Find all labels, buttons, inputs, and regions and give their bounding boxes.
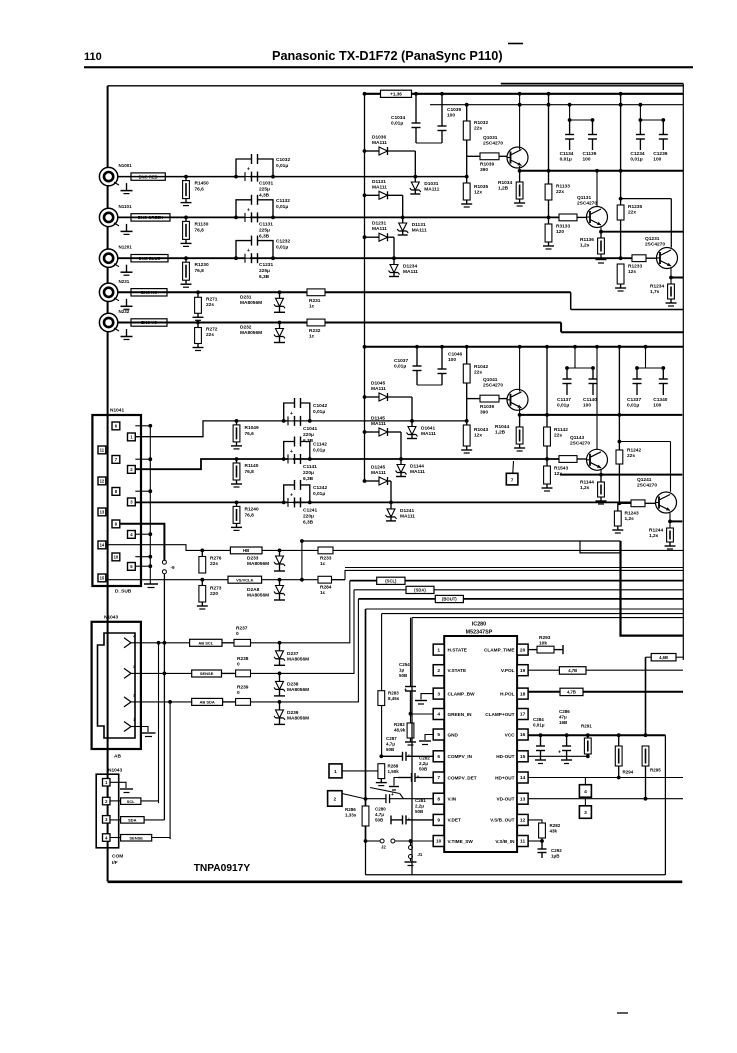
wire +1,36 supply rail bbox=[365, 93, 684, 95]
wire Q1143 collector bbox=[595, 345, 599, 449]
wire Q1143 emitter line bbox=[560, 470, 682, 477]
pin 5 N1041 bbox=[128, 563, 136, 571]
svg-text:D231: D231 bbox=[240, 294, 252, 300]
svg-text:7: 7 bbox=[511, 477, 514, 483]
svg-text:MA111: MA111 bbox=[372, 140, 387, 146]
svg-text:C284: C284 bbox=[533, 717, 544, 722]
wire Q1031 emitter rail bbox=[520, 166, 684, 171]
svg-text:N232: N232 bbox=[119, 309, 130, 314]
wire HB line bbox=[106, 545, 684, 551]
svg-text:0,01μ: 0,01μ bbox=[276, 204, 288, 210]
resistor R1234 1,7 bbox=[650, 284, 674, 300]
svg-text:D237: D237 bbox=[287, 651, 299, 657]
svg-text:V.S/B_IN: V.S/B_IN bbox=[495, 839, 515, 844]
svg-text:76,8: 76,8 bbox=[195, 227, 205, 233]
svg-text:R293: R293 bbox=[539, 635, 551, 641]
svg-text:R288: R288 bbox=[388, 764, 399, 769]
capacitor C1046 bbox=[438, 345, 463, 385]
svg-text:COMPV_DET: COMPV_DET bbox=[448, 775, 477, 780]
svg-text:1,2B: 1,2B bbox=[498, 186, 509, 192]
svg-text:100: 100 bbox=[583, 403, 591, 409]
diode D1144 MA111 clamp bbox=[396, 459, 426, 477]
svg-text:MA111: MA111 bbox=[421, 431, 436, 437]
node 4,6B label bbox=[651, 654, 683, 661]
ground R1035 bbox=[461, 200, 472, 207]
ground pin1 A/B bbox=[141, 727, 156, 737]
node SCL label COM bbox=[110, 798, 159, 805]
svg-text:N1201: N1201 bbox=[119, 245, 133, 250]
wire Q1231 collector link bbox=[621, 199, 672, 248]
wire R1235 rail feed bbox=[619, 92, 623, 171]
svg-text:V.TIME_SW: V.TIME_SW bbox=[448, 839, 474, 844]
svg-text:4,7μ: 4,7μ bbox=[386, 742, 395, 747]
resistor base Q1241 bbox=[619, 500, 655, 507]
svg-text:D1245: D1245 bbox=[371, 465, 385, 471]
svg-text:R1240: R1240 bbox=[245, 506, 259, 512]
svg-text:220μ: 220μ bbox=[303, 513, 314, 519]
svg-text:R1032: R1032 bbox=[474, 120, 488, 126]
svg-text:N1043: N1043 bbox=[104, 615, 118, 621]
wire V.IN bus vertical bbox=[364, 609, 368, 843]
ground R1049 bbox=[231, 442, 242, 449]
wire stage2 supply rail bbox=[365, 346, 684, 348]
resistor R273 220 bbox=[199, 580, 222, 602]
stray mark bottom bbox=[617, 1012, 628, 1014]
svg-text:2SC4270: 2SC4270 bbox=[570, 441, 590, 447]
wire IC enclosing box bottom bbox=[366, 874, 666, 876]
svg-text:9: 9 bbox=[437, 818, 440, 824]
svg-text:+: + bbox=[558, 750, 561, 756]
ground R282b bbox=[405, 738, 416, 745]
svg-text:D1144: D1144 bbox=[410, 464, 424, 470]
svg-text:+: + bbox=[404, 688, 407, 694]
svg-text:225μ: 225μ bbox=[259, 187, 270, 193]
capacitor C280 4,7u bbox=[375, 792, 394, 823]
svg-text:5: 5 bbox=[437, 732, 440, 738]
capacitor C1232 bypass loop bbox=[234, 236, 290, 261]
svg-text:R231: R231 bbox=[309, 298, 321, 304]
svg-text:H.POL: H.POL bbox=[500, 691, 514, 696]
capacitor C283 2,2u pin7 bbox=[389, 756, 433, 791]
wire cap pair feed C1137 bbox=[565, 345, 595, 370]
resistor R1244 1,2 bbox=[649, 528, 673, 543]
svg-text:SENSE: SENSE bbox=[200, 671, 214, 676]
pin 15 IC280 HD-OUT bbox=[496, 751, 528, 762]
diode D237 MA8056M bbox=[274, 641, 309, 665]
capacitor C1242 bypass loop bbox=[282, 480, 328, 504]
ground R3133 bbox=[543, 242, 554, 249]
svg-text:C1140: C1140 bbox=[583, 397, 597, 403]
capacitor C1041 coupling bbox=[284, 411, 318, 444]
svg-text:10: 10 bbox=[436, 839, 442, 845]
svg-text:12: 12 bbox=[520, 818, 526, 824]
svg-text:MA8056M: MA8056M bbox=[287, 687, 309, 693]
svg-text:C1039: C1039 bbox=[447, 107, 461, 113]
diode D1031 MA111 clamp bbox=[410, 177, 440, 194]
svg-text:11: 11 bbox=[520, 839, 525, 845]
ground R1144 bbox=[596, 497, 607, 504]
resistor R276 22 bbox=[199, 549, 222, 574]
connector N1201 BNC bbox=[99, 245, 132, 268]
svg-text:MA8056M: MA8056M bbox=[240, 330, 262, 336]
wire bus BOUT line bbox=[358, 598, 683, 600]
ground R1044 bbox=[514, 444, 525, 451]
wire V.POL line bbox=[528, 669, 683, 671]
pin 2 COM I/F bbox=[103, 797, 111, 805]
wire N1041 pin stub bbox=[135, 489, 152, 493]
svg-text:HD+OUT: HD+OUT bbox=[495, 775, 515, 780]
ground R1543 bbox=[542, 484, 553, 491]
transistor Q1241 2SC4270 bbox=[637, 477, 677, 513]
diode D1245 MA111 bbox=[363, 465, 393, 505]
svg-text:C1242: C1242 bbox=[313, 485, 327, 491]
svg-text:R284: R284 bbox=[320, 585, 332, 591]
pin 2 IC280 V.STATE bbox=[433, 665, 466, 676]
svg-text:AB SCL: AB SCL bbox=[198, 641, 213, 646]
svg-text:C1042: C1042 bbox=[313, 403, 327, 409]
svg-text:TNPA0917Y: TNPA0917Y bbox=[194, 863, 251, 874]
svg-text:MA111: MA111 bbox=[424, 187, 439, 193]
svg-text:0,01μ: 0,01μ bbox=[630, 157, 642, 163]
svg-text:76,8: 76,8 bbox=[245, 512, 255, 518]
resistor R1243 1,2k bbox=[614, 503, 639, 526]
resistor base Q1143 bbox=[559, 456, 587, 463]
svg-text:R238: R238 bbox=[237, 656, 249, 662]
svg-text:+: + bbox=[408, 753, 411, 759]
svg-text:D2A8: D2A8 bbox=[247, 587, 260, 593]
svg-text:C282: C282 bbox=[419, 756, 430, 761]
svg-text:C1031: C1031 bbox=[259, 181, 273, 187]
svg-text:D1241: D1241 bbox=[400, 508, 414, 514]
pin 14 N1041 bbox=[98, 541, 106, 549]
wire VS/VCLK line bbox=[106, 578, 346, 582]
pin 12 IC280 V.S/B_OUT bbox=[490, 814, 528, 825]
svg-text:R232: R232 bbox=[309, 328, 321, 334]
svg-text:1,33s: 1,33s bbox=[345, 813, 357, 818]
ground N1101 bbox=[121, 224, 133, 235]
svg-text:VCC: VCC bbox=[505, 732, 516, 737]
svg-text:12s: 12s bbox=[628, 269, 636, 275]
svg-text:R1242: R1242 bbox=[627, 448, 641, 454]
svg-text:22s: 22s bbox=[206, 302, 214, 308]
svg-text:1,50k: 1,50k bbox=[388, 769, 400, 774]
svg-text:R237: R237 bbox=[236, 626, 248, 632]
node SCL label bbox=[377, 577, 405, 584]
diode D239 MA8056M bbox=[274, 700, 309, 724]
svg-text:+: + bbox=[247, 167, 250, 173]
ground R1240 bbox=[231, 523, 242, 530]
svg-text:COM: COM bbox=[112, 854, 123, 860]
pin 10 IC280 V.TIME_SW bbox=[433, 836, 473, 847]
resistor R237 0 bbox=[222, 626, 251, 647]
svg-text:1,2B: 1,2B bbox=[495, 430, 506, 436]
svg-text:20: 20 bbox=[520, 647, 526, 653]
svg-text:4: 4 bbox=[584, 789, 587, 795]
node BNC_VS label bbox=[131, 319, 167, 326]
pin 19 IC280 V.POL bbox=[501, 665, 528, 676]
svg-text:2SC4270: 2SC4270 bbox=[637, 483, 657, 489]
wire vertical SCL riser bbox=[158, 643, 160, 803]
svg-text:V.POL: V.POL bbox=[501, 668, 515, 673]
svg-text:C1131: C1131 bbox=[259, 221, 273, 227]
transistor Q1041 2SC4270 bbox=[483, 377, 528, 410]
svg-text:Q1231: Q1231 bbox=[645, 236, 660, 242]
resistor R1035 12k bbox=[463, 183, 488, 200]
ground R1244 bbox=[665, 542, 676, 549]
capacitor C1134 bbox=[560, 120, 575, 163]
svg-text:22s: 22s bbox=[210, 561, 218, 567]
svg-text:MA111: MA111 bbox=[372, 226, 387, 232]
resistor R232 1k bbox=[307, 319, 325, 339]
wire stray diagonal near pin8 bbox=[370, 788, 404, 799]
svg-text:4,7μ: 4,7μ bbox=[375, 812, 384, 817]
wire N1041 pin bus vertical bbox=[149, 426, 151, 584]
wire bus L9 bbox=[382, 613, 683, 615]
svg-text:D1031: D1031 bbox=[424, 181, 438, 187]
svg-text:+: + bbox=[417, 775, 420, 781]
svg-text:2: 2 bbox=[333, 796, 336, 802]
wire frame right bbox=[682, 84, 684, 660]
pin 3 N1043 A/B bbox=[124, 664, 141, 679]
svg-text:76,6: 76,6 bbox=[245, 431, 255, 437]
diode D1241 MA111 clamp bbox=[386, 502, 416, 521]
node SDA label COM bbox=[110, 817, 164, 824]
svg-text:R291: R291 bbox=[581, 724, 592, 729]
wire cap pair feed C1134 bbox=[568, 103, 595, 122]
svg-text:COMPV_IN: COMPV_IN bbox=[448, 754, 473, 759]
svg-text:0: 0 bbox=[237, 662, 240, 668]
wire BNC_HS line bbox=[118, 292, 684, 309]
ground R1043 bbox=[461, 446, 472, 453]
capacitor C1142 bypass loop bbox=[282, 437, 327, 461]
wire frame top bbox=[108, 84, 684, 86]
svg-text:R1144: R1144 bbox=[580, 480, 594, 486]
wire 4,6B feed vertical bbox=[646, 657, 652, 735]
node TNPA0917Y part number bbox=[194, 863, 251, 874]
svg-text:R272: R272 bbox=[206, 327, 218, 333]
resistor R271 22 bbox=[195, 290, 218, 313]
wire VCC line bbox=[528, 733, 665, 737]
jumper J1 bbox=[405, 839, 423, 865]
resistor R1133 22k bbox=[545, 169, 570, 224]
svg-text:V.STATE: V.STATE bbox=[448, 668, 467, 673]
transistor Q1231 2SC4270 bbox=[645, 236, 678, 269]
wire bus L10 IC top bbox=[412, 617, 683, 619]
connector N1001 BNC bbox=[99, 163, 132, 186]
svg-text:1μB: 1μB bbox=[551, 854, 560, 859]
svg-text:2SC4270: 2SC4270 bbox=[483, 141, 503, 147]
svg-text:C1337: C1337 bbox=[627, 397, 641, 403]
svg-text:3: 3 bbox=[584, 810, 587, 816]
pin 1 N1043 A/B bbox=[124, 717, 141, 732]
ground R1234 bbox=[666, 299, 677, 306]
svg-text:R1049: R1049 bbox=[245, 425, 259, 431]
resistor R284 1k bbox=[318, 576, 332, 596]
svg-text:V.S/B_OUT: V.S/B_OUT bbox=[490, 818, 514, 823]
node 7 off-page bbox=[506, 461, 518, 485]
svg-text:+: + bbox=[247, 248, 250, 254]
diode D1131 MA111 clamp bbox=[397, 217, 427, 235]
wire left main ground bus bbox=[107, 86, 109, 882]
svg-text:48,9k: 48,9k bbox=[394, 728, 406, 733]
svg-text:+: + bbox=[290, 411, 293, 417]
svg-text:R1450: R1450 bbox=[195, 181, 209, 187]
wire BNC_BLUE signal line bbox=[118, 257, 632, 259]
wire pin4 GREEN_IN bbox=[411, 713, 434, 715]
pin 7 IC280 COMPV_DET bbox=[433, 772, 477, 783]
wire pin5 ground bbox=[419, 735, 433, 745]
svg-text:CLAMP_TIME: CLAMP_TIME bbox=[484, 647, 514, 652]
resistor R272 22 bbox=[195, 321, 218, 344]
stray mark top bbox=[508, 43, 523, 45]
svg-text:C286: C286 bbox=[559, 709, 570, 714]
svg-text:R1243: R1243 bbox=[625, 511, 639, 517]
pin 2 N1041 bbox=[128, 466, 136, 474]
svg-text:AB: AB bbox=[114, 754, 121, 760]
svg-text:12: 12 bbox=[100, 479, 105, 484]
svg-text:225μ: 225μ bbox=[259, 268, 270, 274]
svg-text:C1142: C1142 bbox=[313, 442, 327, 448]
svg-text:4: 4 bbox=[437, 712, 440, 718]
svg-text:220μ: 220μ bbox=[303, 432, 314, 438]
svg-text:+: + bbox=[290, 449, 293, 455]
wire N1041 pin stub bbox=[135, 457, 152, 461]
wire pin8 V.IN bbox=[366, 798, 434, 800]
svg-text:MA111: MA111 bbox=[410, 469, 425, 475]
resistor R231 1k bbox=[307, 289, 325, 309]
wire clamp bus vertical bbox=[363, 92, 367, 347]
svg-text:R1230: R1230 bbox=[195, 262, 209, 268]
svg-text:J1: J1 bbox=[418, 852, 423, 857]
pin 9 N1041 bbox=[112, 520, 120, 528]
resistor R1049 bbox=[233, 419, 259, 442]
resistor R286 1,33 bbox=[345, 806, 369, 826]
svg-text:19: 19 bbox=[520, 668, 526, 674]
ground R1130 bbox=[181, 239, 192, 246]
svg-text:C292: C292 bbox=[551, 848, 562, 853]
svg-text:225μ: 225μ bbox=[259, 227, 270, 233]
wire bus SDA line bbox=[354, 589, 683, 591]
svg-text:C1234: C1234 bbox=[630, 151, 644, 157]
ground R1136 bbox=[596, 254, 607, 263]
diode D232 MA8056M bbox=[240, 321, 285, 343]
svg-text:220: 220 bbox=[210, 591, 218, 597]
jumper J2 bbox=[380, 839, 395, 850]
diode D231 MA8056M bbox=[240, 290, 285, 312]
svg-text:C1137: C1137 bbox=[557, 397, 571, 403]
capacitor C1141 coupling bbox=[284, 449, 318, 482]
node BNC_HS label bbox=[131, 289, 167, 296]
svg-text:R1244: R1244 bbox=[649, 528, 663, 534]
pin 16 IC280 VCC bbox=[505, 729, 529, 740]
svg-text:0,01μ: 0,01μ bbox=[557, 403, 569, 409]
wire DSUB blue line bbox=[135, 501, 632, 503]
wire VD-OUT line bbox=[528, 797, 683, 801]
node BNC_BLUE label bbox=[131, 255, 168, 262]
wire IC bottom return bbox=[365, 841, 367, 875]
ground N1041 bus bbox=[144, 584, 158, 588]
ground R1450 bbox=[181, 199, 192, 206]
resistor R295 bbox=[642, 746, 661, 799]
pin 3 IC280 CLAMP_BW bbox=[433, 688, 475, 699]
svg-text:D233: D233 bbox=[247, 556, 259, 562]
svg-text:MA111: MA111 bbox=[400, 513, 415, 519]
pin 13 N1041 bbox=[98, 508, 106, 516]
pin 6 IC280 COMPV_IN bbox=[433, 751, 472, 762]
capacitor C1037 bbox=[394, 345, 442, 385]
svg-text:1: 1 bbox=[437, 647, 440, 653]
svg-text:C1139: C1139 bbox=[583, 151, 597, 157]
svg-text:V.IN: V.IN bbox=[448, 797, 457, 802]
svg-text:R1034: R1034 bbox=[498, 180, 512, 186]
pin 11 N1041 bbox=[98, 446, 106, 454]
wire Q1241 collector link bbox=[619, 442, 670, 492]
wire DSUB red line bbox=[135, 421, 467, 437]
svg-text:R282: R282 bbox=[394, 722, 405, 727]
pin 5 IC280 GND bbox=[433, 729, 458, 740]
diode D1234 MA111 clamp bbox=[389, 258, 419, 276]
svg-text:IC280: IC280 bbox=[472, 622, 486, 628]
capacitor C1140 bbox=[583, 368, 598, 409]
wire Q1241 emitter bbox=[668, 513, 682, 528]
svg-text:100: 100 bbox=[653, 157, 661, 163]
svg-text:15: 15 bbox=[100, 576, 105, 581]
svg-text:6,3B: 6,3B bbox=[259, 274, 270, 280]
svg-text:R233: R233 bbox=[320, 556, 332, 562]
svg-text:D1036: D1036 bbox=[372, 135, 386, 141]
svg-text:MA8056M: MA8056M bbox=[247, 561, 269, 567]
svg-text:14: 14 bbox=[100, 543, 105, 548]
svg-text:10k: 10k bbox=[539, 641, 547, 647]
resistor R233 1k bbox=[318, 547, 333, 567]
svg-text:0,01μ: 0,01μ bbox=[627, 403, 639, 409]
capacitor C1137 bbox=[557, 368, 572, 409]
pin 18 IC280 H.POL bbox=[500, 688, 528, 699]
ground N232 bbox=[121, 329, 133, 340]
header title Panasonic TX-D1F72 (PanaSync P110) bbox=[272, 49, 503, 63]
node 3 off-page bbox=[579, 799, 591, 819]
svg-text:16B: 16B bbox=[559, 720, 568, 725]
svg-text:C1132: C1132 bbox=[276, 198, 290, 204]
wire pin9 HB line thick bbox=[120, 524, 164, 561]
svg-text:1c: 1c bbox=[309, 303, 315, 309]
node base junction R bbox=[465, 153, 469, 184]
diode D1145 MA111 bbox=[363, 416, 403, 461]
pin 4 N1043 A/B bbox=[124, 633, 141, 648]
svg-text:R282: R282 bbox=[550, 823, 561, 828]
svg-text:GREEN_IN: GREEN_IN bbox=[448, 712, 473, 717]
wire bus L8 bbox=[366, 608, 684, 610]
node +1,36 label bbox=[381, 90, 412, 97]
capacitor C287 4,7u bbox=[379, 736, 433, 761]
svg-text:Q1031: Q1031 bbox=[483, 135, 498, 141]
svg-text:R1042: R1042 bbox=[474, 364, 488, 370]
svg-text:120: 120 bbox=[556, 229, 564, 235]
resistor R1130 bbox=[183, 216, 209, 240]
svg-text:D1145: D1145 bbox=[371, 416, 385, 422]
pin 14 IC280 HD+OUT bbox=[495, 772, 528, 783]
wire AB SDA row bbox=[141, 700, 192, 704]
svg-text:R1035: R1035 bbox=[474, 184, 488, 190]
svg-text:MA8056M: MA8056M bbox=[240, 300, 262, 306]
wire cap pair feed C1234 bbox=[639, 103, 666, 122]
svg-text:MA111: MA111 bbox=[412, 228, 427, 234]
pin 1 N1041 bbox=[128, 433, 136, 441]
svg-text:1c: 1c bbox=[320, 561, 326, 567]
wire H.POL line bbox=[528, 691, 683, 693]
wire frame bottom bbox=[108, 880, 683, 883]
pin 12 N1041 bbox=[98, 477, 106, 485]
